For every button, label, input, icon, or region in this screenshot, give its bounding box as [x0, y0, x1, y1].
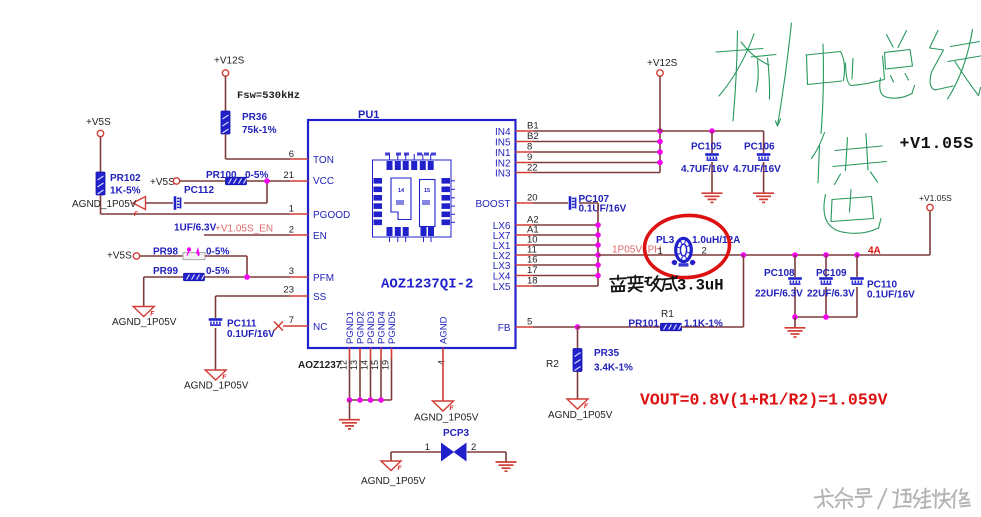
svg-text:1: 1 — [289, 204, 294, 215]
svg-text:75k-1%: 75k-1% — [242, 125, 277, 136]
svg-text:PC105: PC105 — [691, 142, 722, 153]
svg-text:AOZ1237: AOZ1237 — [298, 360, 342, 371]
svg-text:PR98: PR98 — [153, 247, 178, 258]
svg-text:AGND_1P05V: AGND_1P05V — [361, 476, 426, 487]
svg-text:1UF/6.3V: 1UF/6.3V — [174, 223, 217, 234]
svg-text:13: 13 — [349, 360, 359, 370]
svg-text:PR36: PR36 — [242, 112, 267, 123]
svg-text:21: 21 — [283, 170, 294, 181]
svg-text:PFM: PFM — [313, 273, 334, 284]
svg-text:22UF/6.3V: 22UF/6.3V — [807, 289, 855, 300]
svg-text:LX5: LX5 — [493, 282, 511, 293]
svg-text:VCC: VCC — [313, 176, 334, 187]
svg-text:4: 4 — [437, 360, 447, 365]
svg-text:PR35: PR35 — [594, 348, 619, 359]
svg-text:IN1: IN1 — [495, 148, 511, 159]
svg-text:PC106: PC106 — [744, 142, 775, 153]
svg-text:PC108: PC108 — [764, 268, 795, 279]
svg-text:PR100: PR100 — [206, 170, 237, 181]
svg-text:0.1UF/16V: 0.1UF/16V — [867, 290, 915, 301]
svg-text:4.7UF/16V: 4.7UF/16V — [733, 164, 781, 175]
svg-text:1.1K-1%: 1.1K-1% — [684, 319, 723, 330]
svg-text:+V12S: +V12S — [647, 58, 678, 69]
svg-text:PC112: PC112 — [184, 185, 214, 196]
svg-text:4.7UF/16V: 4.7UF/16V — [681, 164, 729, 175]
svg-text:+V1.05S: +V1.05S — [919, 193, 952, 203]
svg-text:20: 20 — [527, 193, 538, 204]
svg-text:0.1UF/16V: 0.1UF/16V — [579, 204, 627, 215]
svg-text:EN: EN — [313, 231, 327, 242]
svg-text:BOOST: BOOST — [475, 199, 510, 210]
svg-text:9: 9 — [527, 152, 532, 163]
svg-text:B1: B1 — [527, 121, 539, 132]
svg-text:IN5: IN5 — [495, 138, 511, 149]
svg-text:PGND3: PGND3 — [366, 311, 377, 344]
svg-text:2: 2 — [471, 442, 476, 453]
svg-text:14: 14 — [398, 188, 405, 194]
svg-text:+V5S: +V5S — [150, 177, 175, 188]
svg-text:PC111: PC111 — [227, 319, 257, 330]
svg-text:NC: NC — [313, 322, 327, 333]
svg-text:PGND5: PGND5 — [387, 311, 398, 344]
svg-text:+V5S: +V5S — [107, 251, 132, 262]
svg-text:FB: FB — [498, 323, 511, 334]
svg-text:PGND2: PGND2 — [356, 311, 367, 344]
svg-text:4A: 4A — [868, 246, 881, 257]
svg-text:PR102: PR102 — [110, 173, 141, 184]
svg-text:+V5S: +V5S — [86, 117, 111, 128]
svg-text:23: 23 — [283, 285, 294, 296]
svg-text:IN4: IN4 — [495, 127, 511, 138]
svg-text:PC109: PC109 — [816, 268, 847, 279]
svg-text:+V12S: +V12S — [214, 56, 245, 67]
svg-text:0-5%: 0-5% — [206, 266, 229, 277]
svg-text:7: 7 — [289, 315, 294, 326]
svg-text:AGND: AGND — [439, 316, 450, 344]
svg-text:SS: SS — [313, 292, 327, 303]
svg-text:+V1.05S: +V1.05S — [900, 134, 975, 153]
svg-text:3: 3 — [289, 266, 294, 277]
svg-text:8: 8 — [527, 142, 532, 153]
svg-text:2: 2 — [702, 246, 707, 257]
svg-text:AGND_1P05V: AGND_1P05V — [184, 381, 249, 392]
svg-text:1K-5%: 1K-5% — [110, 186, 141, 197]
svg-text:IN3: IN3 — [495, 169, 511, 180]
svg-text:PR101: PR101 — [628, 319, 659, 330]
svg-text:TON: TON — [313, 155, 334, 166]
svg-text:PL3: PL3 — [656, 235, 675, 246]
svg-text:3.3uH: 3.3uH — [677, 277, 724, 295]
svg-text:AGND_1P05V: AGND_1P05V — [72, 199, 137, 210]
svg-text:F: F — [134, 212, 138, 218]
svg-text:5: 5 — [527, 317, 532, 328]
svg-text:15: 15 — [370, 360, 380, 370]
svg-text:2: 2 — [289, 225, 294, 236]
svg-text:1: 1 — [425, 442, 430, 453]
svg-text:14: 14 — [360, 360, 370, 370]
svg-text:1: 1 — [658, 246, 663, 257]
svg-text:18: 18 — [527, 276, 538, 287]
svg-text:PR99: PR99 — [153, 266, 178, 277]
svg-text:Fsw=530kHz: Fsw=530kHz — [237, 90, 300, 102]
svg-text:AOZ1237QI-2: AOZ1237QI-2 — [381, 277, 473, 293]
svg-text:PCP3: PCP3 — [443, 428, 470, 439]
svg-text:PGOOD: PGOOD — [313, 210, 350, 221]
svg-text:19: 19 — [381, 360, 391, 370]
svg-text:0.1UF/16V: 0.1UF/16V — [227, 329, 275, 340]
svg-text:17: 17 — [527, 265, 538, 276]
svg-text:+V1.05S_EN: +V1.05S_EN — [215, 224, 273, 235]
svg-text:3.4K-1%: 3.4K-1% — [594, 363, 633, 374]
svg-text:R2: R2 — [546, 359, 559, 370]
svg-text:LX3: LX3 — [493, 261, 511, 272]
svg-text:PGND1: PGND1 — [345, 311, 356, 344]
svg-text:B2: B2 — [527, 131, 539, 142]
svg-text:AGND_1P05V: AGND_1P05V — [414, 413, 479, 424]
svg-text:22UF/6.3V: 22UF/6.3V — [755, 289, 803, 300]
svg-text:LX4: LX4 — [493, 272, 511, 283]
svg-text:16: 16 — [527, 255, 538, 266]
svg-text:AGND_1P05V: AGND_1P05V — [112, 317, 177, 328]
svg-text:1P05V_PH: 1P05V_PH — [612, 245, 661, 256]
svg-text:R1: R1 — [661, 309, 674, 320]
svg-text:AGND_1P05V: AGND_1P05V — [548, 410, 613, 421]
svg-text:VOUT=0.8V(1+R1/R2)=1.059V: VOUT=0.8V(1+R1/R2)=1.059V — [640, 391, 888, 410]
svg-text:1.0uH/12A: 1.0uH/12A — [692, 235, 740, 246]
svg-text:15: 15 — [424, 188, 430, 194]
svg-text:PU1: PU1 — [358, 109, 379, 121]
svg-text:PGND4: PGND4 — [377, 311, 388, 344]
svg-text:0-5%: 0-5% — [245, 170, 268, 181]
